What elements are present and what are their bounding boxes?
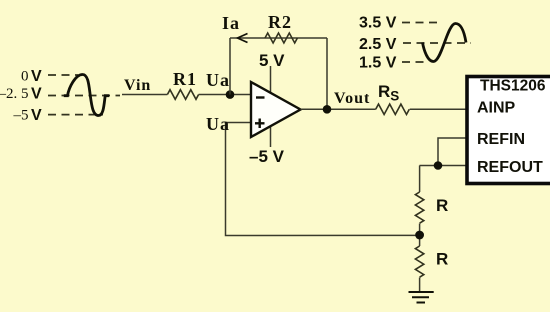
resistor R lower <box>415 246 423 277</box>
svg-text:R: R <box>436 196 448 215</box>
output sine wave <box>423 24 467 62</box>
svg-text:2.5 V: 2.5 V <box>359 36 397 53</box>
svg-text:AINP: AINP <box>477 100 516 117</box>
node REFIN-REFOUT junction <box>434 161 443 170</box>
svg-text:R2: R2 <box>268 12 292 32</box>
supply -5V line <box>270 125 272 147</box>
wire R1 to op-amp inverting input <box>199 94 251 96</box>
svg-text:5 V: 5 V <box>259 51 285 70</box>
wire REFIN <box>438 138 467 166</box>
resistor R2 <box>265 33 297 43</box>
current arrow Ia <box>238 34 248 43</box>
output waveform dashed levels <box>402 23 471 63</box>
node Ua inverting input <box>226 90 235 99</box>
wire feedback right vertical <box>326 38 328 109</box>
svg-text:R: R <box>436 250 448 269</box>
wire op-amp output <box>301 108 376 110</box>
svg-text:–2. 5: –2. 5 <box>0 86 29 102</box>
resistor R upper <box>415 192 423 223</box>
resistor R1 <box>167 90 198 100</box>
svg-text:R1: R1 <box>173 69 197 89</box>
input waveform dashed levels <box>48 75 120 115</box>
svg-text:Vout: Vout <box>334 90 370 107</box>
svg-text:REFIN: REFIN <box>477 131 525 148</box>
svg-text:3.5 V: 3.5 V <box>359 15 397 32</box>
svg-text:Ua: Ua <box>206 70 230 90</box>
wire junction to divider top <box>419 166 421 193</box>
op-amp plus sign <box>255 119 265 129</box>
svg-text:0: 0 <box>21 69 29 85</box>
IC U2 THS1206 <box>467 77 550 184</box>
svg-text:V: V <box>31 86 42 103</box>
wire Vin <box>122 94 167 96</box>
svg-text:REFOUT: REFOUT <box>477 159 543 176</box>
svg-text:V: V <box>31 107 42 124</box>
input sine wave <box>64 75 109 116</box>
wire RS to AINP <box>410 108 467 110</box>
wire feedback left vertical <box>229 38 231 95</box>
svg-text:Ua: Ua <box>206 114 230 134</box>
wire lower R to ground <box>419 278 421 293</box>
input waveform level labels 0V -2.5V -5V <box>0 68 42 124</box>
svg-text:Vin: Vin <box>124 77 151 94</box>
ground <box>409 292 434 303</box>
svg-text:Ia: Ia <box>222 13 240 33</box>
wire feedback top <box>230 37 327 39</box>
svg-text:–5: –5 <box>13 108 29 124</box>
node divider midpoint <box>415 231 424 240</box>
op-amp minus sign <box>256 96 265 98</box>
output waveform level labels 3.5V 2.5V 1.5V <box>359 15 397 72</box>
resistor RS <box>376 104 410 114</box>
op-amp U1 <box>251 82 301 137</box>
wire upper R to midpoint <box>419 224 421 247</box>
svg-text:THS1206: THS1206 <box>480 78 546 95</box>
wire to non-inverting input <box>226 123 420 236</box>
svg-text:1.5 V: 1.5 V <box>359 55 397 72</box>
supply +5V line <box>270 66 272 95</box>
svg-text:V: V <box>31 68 42 85</box>
wire REFOUT <box>420 165 468 167</box>
node Vout <box>323 105 332 114</box>
svg-text:–5 V: –5 V <box>249 147 285 166</box>
